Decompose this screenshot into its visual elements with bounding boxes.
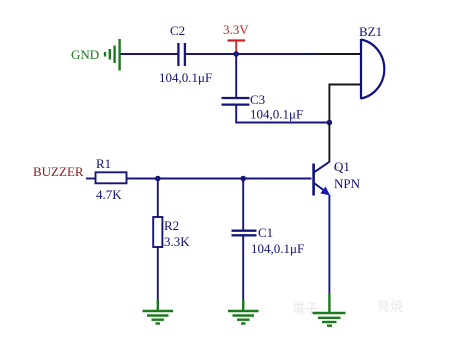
- label BZ1: [359, 24, 382, 39]
- svg-text:3.3V: 3.3V: [223, 22, 249, 37]
- wire R2 to ground: [157, 247, 159, 302]
- resistor R1: [96, 172, 127, 183]
- svg-text:104,0.1μF: 104,0.1μF: [159, 70, 212, 85]
- svg-text:4.7K: 4.7K: [96, 187, 122, 202]
- wire R1 to Q1 base: [127, 178, 312, 180]
- svg-text:R1: R1: [96, 156, 111, 171]
- value 4.7K: [96, 187, 122, 202]
- svg-text:BUZZER: BUZZER: [33, 164, 84, 179]
- wire GND to C2: [121, 53, 178, 55]
- wire C3 bottom to collector node: [236, 105, 329, 123]
- label R1: [96, 156, 111, 171]
- resistor R2: [153, 217, 162, 247]
- svg-text:3.3K: 3.3K: [164, 234, 190, 249]
- watermark (faint): [292, 165, 403, 316]
- label NPN: [334, 176, 361, 191]
- capacitor C2: [178, 43, 185, 66]
- wire to buzzer pin 1 (dark): [318, 53, 360, 55]
- svg-text:発焼: 発焼: [377, 299, 403, 314]
- ground under Q1 emitter: [313, 294, 346, 326]
- label 3.3V: [223, 22, 249, 37]
- ground under R2: [143, 300, 174, 324]
- label C2: [170, 23, 185, 38]
- wire 3.3V node down to C3: [235, 54, 237, 98]
- label BUZZER net: [33, 164, 84, 179]
- svg-text:C3: C3: [250, 92, 265, 107]
- wire buzzer pin 2 L-shape (dark): [329, 85, 360, 123]
- svg-text:R2: R2: [164, 218, 179, 233]
- junction node C1 tap: [240, 176, 246, 182]
- ground GND power symbol: [105, 39, 120, 71]
- value 104,0.1uF of C3: [250, 107, 303, 122]
- junction node R2 tap: [155, 176, 161, 182]
- wire junction down to Q1 collector (dark): [328, 123, 330, 163]
- node GND label: [71, 47, 99, 62]
- ground under C1: [228, 300, 259, 324]
- label R2: [164, 218, 179, 233]
- wire 3.3V node toward buzzer: [236, 53, 318, 55]
- svg-text:C2: C2: [170, 23, 185, 38]
- label Q1: [334, 159, 350, 174]
- wire C1 to ground: [242, 236, 244, 302]
- value 104,0.1uF of C2: [159, 70, 212, 85]
- wire Q1 emitter to ground: [328, 195, 330, 296]
- svg-text:C1: C1: [258, 225, 273, 240]
- capacitor C3: [222, 98, 250, 105]
- svg-text:BZ1: BZ1: [359, 24, 382, 39]
- svg-text:104,0.1μF: 104,0.1μF: [250, 107, 303, 122]
- wire junction down to R2: [157, 179, 159, 218]
- buzzer BZ1: [361, 39, 384, 99]
- value 104,0.1uF of C1: [251, 241, 304, 256]
- wire C2 to 3.3V node: [186, 53, 237, 55]
- value 3.3K: [164, 234, 190, 249]
- junction node 3.3V rail: [233, 51, 239, 57]
- label C1: [258, 225, 273, 240]
- label C3: [250, 92, 265, 107]
- junction node collector net: [327, 120, 333, 126]
- transistor Q1: [314, 162, 330, 196]
- wire BUZZER to R1: [86, 178, 95, 180]
- power 3.3V symbol: [228, 41, 246, 54]
- wire junction down to C1: [242, 179, 244, 231]
- capacitor C1: [232, 231, 257, 236]
- svg-text:NPN: NPN: [334, 176, 361, 191]
- svg-text:GND: GND: [71, 47, 99, 62]
- svg-text:Q1: Q1: [334, 159, 350, 174]
- svg-text:104,0.1μF: 104,0.1μF: [251, 241, 304, 256]
